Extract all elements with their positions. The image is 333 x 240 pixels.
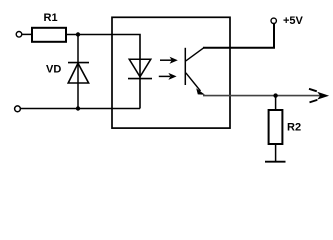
wire: VD branch vertical bbox=[77, 35, 79, 109]
LED D1 bbox=[128, 59, 152, 78]
phototransistor Q1 emitter diagonal with arrow bbox=[186, 73, 205, 95]
phototransistor Q1 collector diagonal bbox=[186, 48, 204, 61]
wire: R2 to ground bbox=[275, 144, 277, 162]
resistor R2 bbox=[269, 110, 283, 144]
wire: emitter output horizontal bbox=[203, 95, 322, 97]
terminal +5V bbox=[271, 18, 276, 23]
phototransistor Q1 base bar bbox=[184, 48, 186, 85]
input terminal X2 (bottom-left) bbox=[15, 106, 21, 112]
svg-text:+5V: +5V bbox=[283, 15, 304, 27]
light arrow 1 bbox=[160, 57, 178, 64]
wire: node C to R2 bbox=[275, 96, 277, 110]
ground bbox=[265, 161, 286, 163]
input terminal X1 (top-left) bbox=[16, 32, 22, 38]
node A (junction dot) bbox=[76, 32, 80, 36]
resistor R1 bbox=[32, 28, 66, 42]
node C (junction dot) bbox=[273, 93, 277, 97]
wire: bottom input horizontal bbox=[20, 108, 140, 110]
svg-text:VD: VD bbox=[46, 63, 61, 75]
wire: terminal X1 to R1 bbox=[22, 33, 32, 35]
diode VD bbox=[68, 63, 89, 83]
node B (junction dot) bbox=[76, 106, 80, 110]
output arrow bbox=[309, 89, 328, 103]
optocoupler U1 box bbox=[112, 17, 230, 128]
light arrow 2 bbox=[159, 73, 177, 80]
svg-text:R1: R1 bbox=[44, 12, 58, 24]
wire: collector to +5V rail bbox=[203, 23, 274, 47]
wire: R1 to LED anode corner bbox=[66, 35, 140, 109]
svg-text:R2: R2 bbox=[287, 121, 301, 133]
